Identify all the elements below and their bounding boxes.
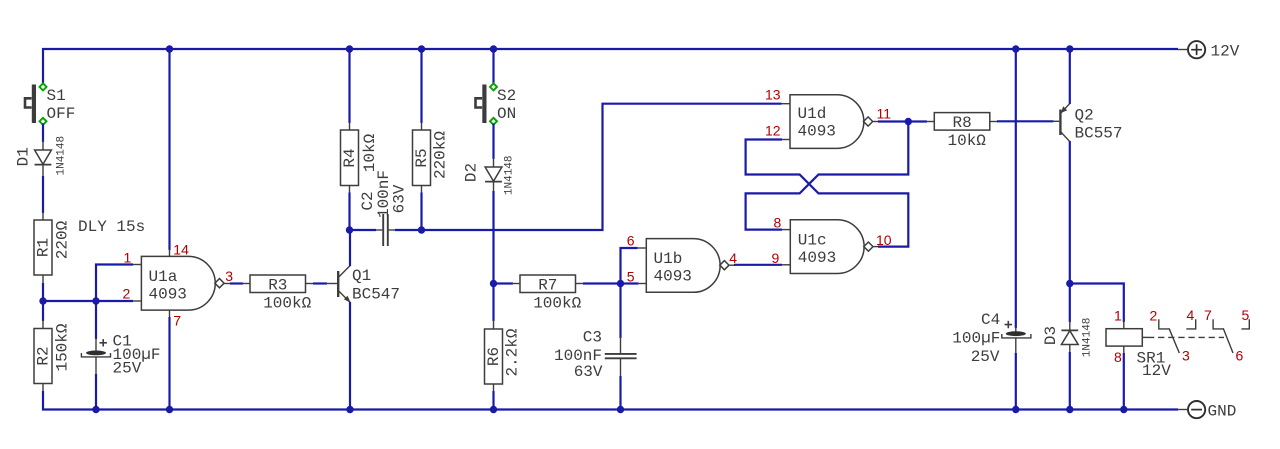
- switch S2: [476, 83, 517, 124]
- junction S2 at +12V rail: [490, 45, 497, 52]
- wire node to C3: [619, 284, 621, 339]
- diode D2 1N4148: [463, 155, 516, 195]
- pin label 4 (relay): [1187, 307, 1195, 323]
- wire node to U1b pin5: [621, 282, 639, 284]
- svg-text:1N4148: 1N4148: [1082, 318, 1094, 358]
- svg-text:100kΩ: 100kΩ: [533, 295, 581, 313]
- relay contact blade 7-6: [1223, 328, 1233, 353]
- svg-text:10kΩ: 10kΩ: [948, 132, 987, 150]
- pin label 3: [225, 268, 233, 284]
- svg-text:R5: R5: [413, 148, 431, 167]
- pin label 14: [173, 242, 189, 258]
- junction D2/R6/R7: [490, 280, 497, 287]
- wire D2 to R7 node (crosses C2 node wire): [492, 191, 494, 284]
- svg-text:2.2kΩ: 2.2kΩ: [504, 328, 522, 376]
- svg-text:U1c: U1c: [798, 232, 827, 250]
- svg-text:R3: R3: [268, 276, 287, 294]
- svg-text:6: 6: [627, 233, 635, 249]
- resistor R3 100k: [242, 275, 314, 313]
- svg-text:R7: R7: [538, 276, 557, 294]
- svg-text:4093: 4093: [798, 123, 836, 141]
- wire S2 to D2: [492, 124, 494, 160]
- wire R3 to Q1 base: [313, 282, 327, 284]
- wire node to R7: [494, 282, 514, 284]
- svg-text:11: 11: [877, 106, 892, 122]
- nand gate U1c 4093: [782, 220, 879, 274]
- capacitor C3 100nF: [554, 329, 637, 381]
- svg-text:1: 1: [124, 250, 132, 266]
- svg-text:Q2: Q2: [1075, 107, 1094, 125]
- diode D1 1N4148: [15, 136, 68, 176]
- junction C2 right / R5: [418, 226, 425, 233]
- wire Q2 collector to D3/relay node: [1069, 141, 1071, 284]
- svg-text:2: 2: [123, 286, 131, 302]
- svg-text:63V: 63V: [391, 184, 409, 213]
- svg-text:GND: GND: [1208, 403, 1237, 421]
- junction at C1 top: [92, 297, 99, 304]
- svg-text:12V: 12V: [1211, 43, 1240, 61]
- svg-text:U1a: U1a: [149, 268, 178, 286]
- svg-text:S2: S2: [497, 87, 516, 105]
- junction Q2 emitter at +12V rail: [1066, 45, 1073, 52]
- svg-text:2: 2: [1150, 308, 1158, 324]
- pin label 8 (relay): [1114, 349, 1122, 365]
- svg-text:D2: D2: [463, 163, 481, 182]
- svg-text:1N4148: 1N4148: [504, 155, 516, 195]
- resistor R6 2.2k: [485, 284, 522, 410]
- resistor R1 220R: [34, 212, 72, 283]
- svg-text:63V: 63V: [574, 363, 603, 381]
- svg-text:Q1: Q1: [352, 267, 371, 285]
- pin label 1 (relay): [1114, 308, 1122, 324]
- svg-text:R2: R2: [35, 346, 53, 365]
- wire U1a pin 14: [168, 49, 170, 256]
- pin label 2: [123, 286, 131, 302]
- capacitor C4 100uF: [952, 311, 1031, 410]
- svg-text:U1d: U1d: [798, 105, 827, 123]
- wire R1 to node: [42, 283, 44, 301]
- resistor R2 150k: [34, 301, 72, 391]
- relay actuation dashed line: [1142, 336, 1224, 338]
- wire U1a pin 7 to GND: [169, 310, 171, 409]
- svg-text:C3: C3: [583, 329, 602, 347]
- svg-text:S1: S1: [47, 87, 66, 105]
- wire U1c out feedback to U1d pin12 (latch cross): [746, 140, 909, 247]
- nand gate U1d 4093: [781, 95, 878, 149]
- relay contact pin 5: [1241, 319, 1249, 329]
- pin label 7: [173, 313, 181, 329]
- junction Q2 collector / D3 / relay: [1066, 280, 1073, 287]
- svg-text:100µF: 100µF: [952, 330, 1000, 348]
- wire GND bottom rail: [43, 391, 1178, 410]
- relay SR1 12V coil: [1106, 321, 1171, 380]
- capacitor C1 100uF: [81, 301, 160, 410]
- wire node to U1b pin6: [621, 248, 638, 284]
- wire U1b out to U1c pin9: [734, 264, 782, 266]
- svg-text:4: 4: [729, 250, 737, 266]
- wire Q2 emitter to +12V rail: [1069, 49, 1071, 104]
- pin label 5 (relay): [1242, 307, 1250, 323]
- junction Q1 emitter at GND rail: [346, 406, 353, 413]
- svg-text:4093: 4093: [798, 249, 836, 267]
- svg-text:8: 8: [1114, 349, 1122, 365]
- relay contact pin 4: [1186, 319, 1195, 329]
- transistor Q1 BC547: [326, 266, 400, 304]
- svg-text:8: 8: [774, 215, 782, 231]
- svg-text:R8: R8: [953, 114, 972, 132]
- pin label 6: [627, 233, 635, 249]
- junction R5 at +12V rail: [418, 45, 425, 52]
- svg-text:7: 7: [1204, 307, 1212, 323]
- junction D3 at GND rail: [1066, 406, 1073, 413]
- pin label 11: [877, 106, 892, 122]
- svg-text:5: 5: [1242, 307, 1250, 323]
- svg-text:100kΩ: 100kΩ: [263, 295, 311, 313]
- pin label 6 (relay): [1236, 348, 1244, 364]
- wire U1a out to R3: [230, 282, 243, 284]
- pin label 13: [765, 87, 781, 103]
- capacitor C2 100nF: [359, 170, 409, 246]
- svg-text:5: 5: [627, 269, 635, 285]
- svg-text:25V: 25V: [113, 360, 142, 378]
- svg-text:150kΩ: 150kΩ: [54, 323, 72, 371]
- svg-text:220Ω: 220Ω: [54, 220, 72, 259]
- pin label 7 (relay): [1204, 307, 1212, 323]
- relay contact pin 7: [1213, 319, 1223, 329]
- pin label 8: [774, 215, 782, 231]
- svg-text:1N4148: 1N4148: [56, 136, 68, 176]
- svg-text:4093: 4093: [149, 286, 187, 304]
- wire U1d out to R8: [878, 120, 927, 122]
- svg-text:4: 4: [1187, 307, 1195, 323]
- svg-text:25V: 25V: [971, 348, 1000, 366]
- wire Q1 collector to C2 node: [349, 230, 351, 266]
- nand gate U1b 4093: [638, 239, 736, 293]
- wire U1d out feedback to U1c pin8 (latch cross): [746, 122, 909, 230]
- wire C3 to GND: [619, 376, 621, 410]
- pin label 2 (relay): [1150, 308, 1158, 324]
- svg-text:BC557: BC557: [1075, 125, 1123, 143]
- pin label 5: [627, 269, 635, 285]
- svg-text:U1b: U1b: [654, 250, 683, 268]
- svg-text:3: 3: [1182, 348, 1190, 364]
- relay contact pin 2: [1159, 319, 1169, 329]
- svg-text:R4: R4: [341, 148, 359, 167]
- svg-text:DLY 15s: DLY 15s: [78, 218, 145, 236]
- pin label 12: [765, 123, 781, 139]
- node wire C2 left: [350, 229, 377, 231]
- svg-text:C4: C4: [981, 311, 1000, 329]
- junction relay at GND rail: [1120, 406, 1127, 413]
- junction U1d out node 11: [905, 118, 912, 125]
- svg-text:OFF: OFF: [47, 105, 76, 123]
- switch S1: [25, 83, 75, 124]
- junction R6 at GND rail: [490, 406, 497, 413]
- nand gate U1a 4093: [133, 256, 231, 310]
- junction U1a pin7 at GND rail: [166, 406, 173, 413]
- junction C4 at GND rail: [1012, 406, 1019, 413]
- junction U1a pin14 at +12V rail: [166, 45, 173, 52]
- GND terminal: [1178, 401, 1236, 421]
- pin label 4: [729, 250, 737, 266]
- resistor R5 220k: [413, 49, 450, 230]
- svg-text:R6: R6: [485, 347, 503, 366]
- svg-text:9: 9: [772, 250, 780, 266]
- pin label 1: [124, 250, 132, 266]
- junction C2 left / Q1 collector: [346, 226, 353, 233]
- pin label 3 (relay): [1182, 348, 1190, 364]
- svg-text:6: 6: [1236, 348, 1244, 364]
- svg-text:3: 3: [225, 268, 233, 284]
- wire R8 to Q2 base (crosses C4 line): [997, 120, 1054, 122]
- relay contact blade 2-3: [1169, 328, 1179, 353]
- node R1/R2/C1/U1a pin2: [43, 300, 133, 302]
- wire S1 to D1: [42, 124, 44, 143]
- svg-text:1: 1: [1114, 308, 1122, 324]
- wire rail to S2: [492, 49, 494, 85]
- junction C1 at GND rail: [92, 406, 99, 413]
- svg-text:D1: D1: [15, 147, 33, 166]
- wire relay to GND: [1123, 353, 1125, 410]
- wire node to U1a pin1: [96, 265, 133, 302]
- resistor R8 10k: [926, 113, 998, 150]
- svg-text:220kΩ: 220kΩ: [432, 131, 450, 179]
- node wire C2 right to U1d pin13: [395, 104, 782, 230]
- svg-text:10kΩ: 10kΩ: [361, 133, 379, 172]
- junction U1b pins 5/6 node: [617, 280, 624, 287]
- label DLY 15s: [78, 218, 145, 236]
- transistor Q2 BC557: [1053, 103, 1123, 142]
- wire D1 to R1: [42, 176, 44, 213]
- +12V supply terminal: [1178, 41, 1240, 60]
- junction C3 at GND rail: [617, 406, 624, 413]
- wire +12V rail to C4 (crosses R8 wire): [1015, 49, 1017, 328]
- resistor R4 10k: [341, 49, 380, 230]
- pin label 10: [876, 232, 892, 248]
- svg-text:13: 13: [765, 87, 781, 103]
- svg-text:R1: R1: [35, 238, 53, 257]
- svg-text:12V: 12V: [1142, 362, 1171, 380]
- wire node to relay SR1: [1070, 284, 1124, 323]
- junction R4 at +12V rail: [346, 45, 353, 52]
- junction at R1/R2: [39, 297, 46, 304]
- svg-text:ON: ON: [497, 105, 516, 123]
- diode D3 1N4148: [1042, 284, 1094, 410]
- svg-text:D3: D3: [1042, 326, 1060, 345]
- svg-text:7: 7: [173, 313, 181, 329]
- svg-text:14: 14: [173, 242, 189, 258]
- resistor R7 100k: [512, 275, 584, 313]
- svg-text:4093: 4093: [654, 268, 692, 286]
- wire Q1 emitter to GND: [349, 302, 351, 410]
- svg-text:BC547: BC547: [352, 286, 400, 304]
- svg-text:12: 12: [765, 123, 781, 139]
- wire +12V top rail: [43, 49, 1178, 85]
- wire R7 to U1b node: [583, 282, 621, 284]
- pin label 9: [772, 250, 780, 266]
- junction C4 at +12V rail: [1012, 45, 1019, 52]
